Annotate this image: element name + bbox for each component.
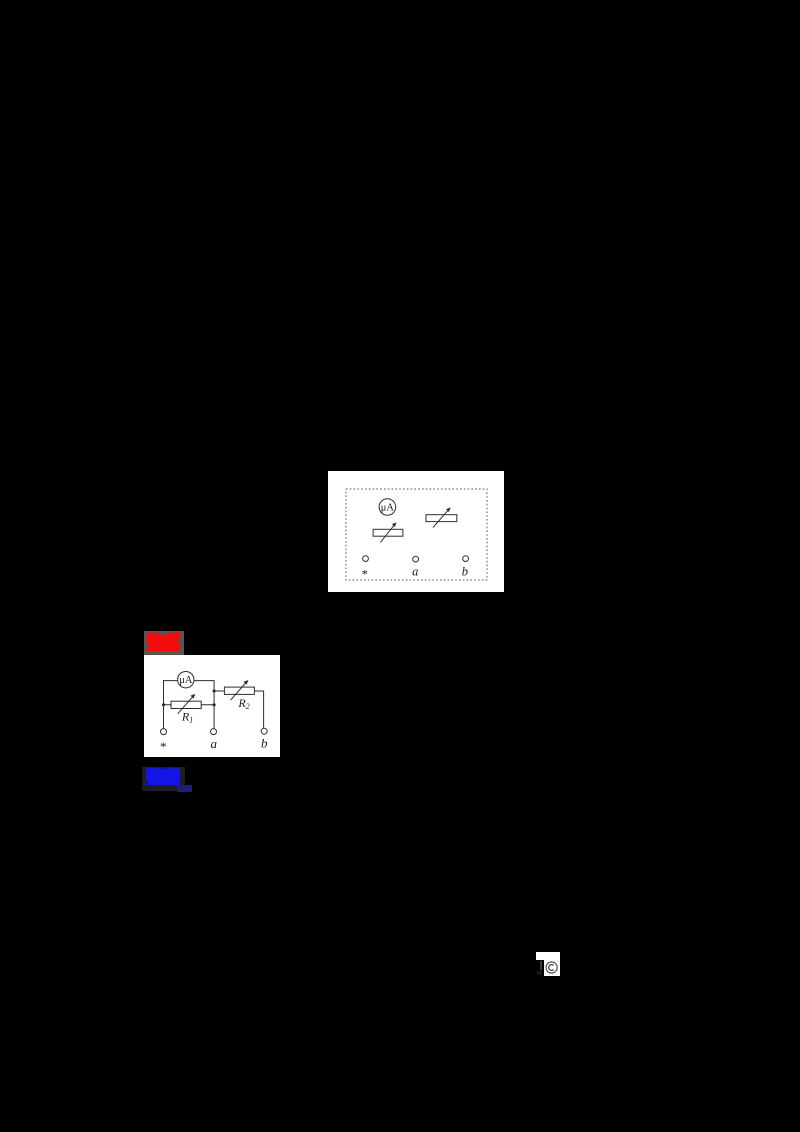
terminal a: [413, 556, 419, 562]
copyright symbol: [544, 959, 560, 976]
copyright watermark fragment: [536, 952, 560, 960]
svg-text:a: a: [412, 565, 418, 579]
dashed panel frame: [346, 489, 487, 580]
resistor R1 (variable): [171, 694, 201, 725]
microammeter uA: [379, 499, 396, 516]
terminal a: [211, 729, 217, 735]
wire: top loop: [164, 681, 215, 729]
svg-text:R2: R2: [237, 696, 249, 711]
junction dot right: [213, 703, 216, 706]
junction dot left: [162, 703, 165, 706]
svg-text:b: b: [462, 565, 468, 579]
svg-text:μA: μA: [381, 503, 395, 514]
terminal *: [363, 556, 369, 562]
microammeter uA: [178, 672, 194, 688]
svg-text:*: *: [362, 568, 368, 582]
svg-text:R1: R1: [181, 710, 193, 725]
wire: R2 branch: [214, 690, 224, 692]
terminal *: [161, 729, 167, 735]
navy underline block: [177, 785, 192, 792]
panel 2: equivalent circuit: [144, 655, 280, 757]
resistor R2 (variable): [224, 680, 254, 711]
terminal b: [463, 556, 469, 562]
rheostat R2 (upper right): [426, 507, 457, 527]
wire: R1 branch: [164, 704, 215, 706]
svg-text:a: a: [211, 736, 218, 751]
junction dot node a top: [213, 689, 216, 692]
svg-text:b: b: [261, 736, 268, 751]
svg-text:*: *: [160, 739, 167, 754]
svg-text:μA: μA: [179, 675, 193, 686]
terminal b: [261, 728, 267, 734]
red redacted label on gray chip: [144, 631, 184, 655]
rheostat R1 (lower left): [373, 522, 403, 542]
blue redacted label on dark chip: [142, 767, 185, 791]
panel 1: instrument front panel with dashed border: [328, 471, 504, 592]
